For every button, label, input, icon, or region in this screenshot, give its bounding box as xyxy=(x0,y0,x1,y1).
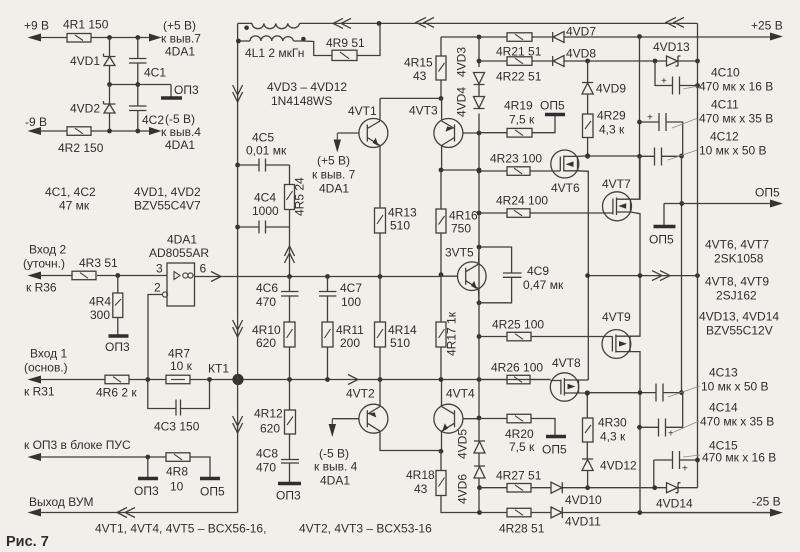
capacitor 4C4 xyxy=(238,226,290,228)
svg-text:4VD13, 4VD14: 4VD13, 4VD14 xyxy=(699,310,779,324)
svg-text:к выв.4: к выв.4 xyxy=(161,125,201,139)
resistor 4R23 xyxy=(479,170,551,172)
capacitor 4C15 xyxy=(654,459,698,461)
ground ОП3 (ПУС) xyxy=(138,477,158,480)
svg-text:Вход 1: Вход 1 xyxy=(30,347,67,361)
transistor 3VT5 xyxy=(458,262,487,291)
svg-text:4VD9: 4VD9 xyxy=(596,82,626,96)
svg-text:к выв. 7: к выв. 7 xyxy=(312,168,356,182)
capacitor 4C14 xyxy=(640,393,683,428)
mosfet 4VT9 xyxy=(602,330,631,359)
wire output node row y275.6 xyxy=(588,275,698,277)
wire op-amp output xyxy=(195,276,441,278)
svg-text:+: + xyxy=(668,429,674,440)
transistor 4VT2 xyxy=(359,404,388,433)
chevron rail down (top) xyxy=(233,85,243,102)
diode 4VD14 zener xyxy=(667,483,681,493)
svg-text:4R8: 4R8 xyxy=(166,465,188,479)
wire +25V row left xyxy=(441,36,479,38)
svg-text:4R2 150: 4R2 150 xyxy=(58,141,104,155)
wire 4VT1 collector row xyxy=(380,97,441,99)
svg-text:4R16: 4R16 xyxy=(449,209,478,223)
svg-text:BZV55C4V7: BZV55C4V7 xyxy=(134,199,201,213)
svg-text:4VT4: 4VT4 xyxy=(446,387,475,401)
resistor 4R5 xyxy=(289,165,291,227)
diode 4VD6 xyxy=(474,453,485,478)
svg-text:620: 620 xyxy=(256,336,276,350)
wire 4VT8 source row xyxy=(587,392,640,394)
svg-text:2: 2 xyxy=(154,281,161,295)
svg-text:1000: 1000 xyxy=(252,204,279,218)
svg-text:к R31: к R31 xyxy=(24,385,55,399)
svg-text:4VT2: 4VT2 xyxy=(346,387,375,401)
svg-text:4R19: 4R19 xyxy=(504,99,533,113)
svg-text:4С3 150: 4С3 150 xyxy=(154,420,200,434)
svg-text:ОП5: ОП5 xyxy=(540,99,565,113)
chevron rail down (bottom) xyxy=(233,416,243,433)
svg-text:4R26 100: 4R26 100 xyxy=(491,361,543,375)
mosfet 4VT8 xyxy=(550,373,578,401)
svg-text:4VD10: 4VD10 xyxy=(565,493,602,507)
svg-text:4VD1, 4VD2: 4VD1, 4VD2 xyxy=(134,185,201,199)
diode 4VD11 xyxy=(551,507,770,518)
wire 4R5/4C4 to opamp-out xyxy=(289,227,291,277)
svg-text:4R28 51: 4R28 51 xyxy=(499,522,545,536)
svg-text:-25 В: -25 В xyxy=(752,495,781,509)
resistor 4R3 xyxy=(72,271,96,280)
svg-text:4С12: 4С12 xyxy=(710,130,739,144)
wire 4VT4 emitter node xyxy=(440,450,442,452)
wire +9V row xyxy=(40,37,152,39)
resistor 4R22 xyxy=(479,60,553,62)
chevron output xyxy=(211,272,221,282)
svg-text:10 к: 10 к xyxy=(170,359,193,373)
capacitor 4C12 xyxy=(640,155,682,157)
resistor 4R25 xyxy=(479,336,602,338)
transistor 4VT1 xyxy=(359,119,388,148)
svg-text:4C1: 4C1 xyxy=(144,66,166,80)
wire ОП3 drop xyxy=(147,457,149,477)
wire link y170 xyxy=(441,169,479,171)
svg-text:4R11: 4R11 xyxy=(336,323,364,337)
svg-text:4VT3: 4VT3 xyxy=(409,104,438,118)
svg-text:4С13: 4С13 xyxy=(709,366,738,380)
diode 4VD12 xyxy=(582,442,593,488)
svg-text:510: 510 xyxy=(390,336,410,350)
wire output row xyxy=(40,512,238,514)
svg-text:к ОП3 в блоке ПУС: к ОП3 в блоке ПУС xyxy=(24,438,131,452)
zener 4VD1 xyxy=(109,38,111,85)
svg-text:4DA1: 4DA1 xyxy=(165,138,195,152)
resistor 4R18 xyxy=(441,451,480,512)
node Вход 2 xyxy=(28,272,42,280)
svg-text:4R13: 4R13 xyxy=(388,206,417,220)
svg-text:ОП5: ОП5 xyxy=(542,443,567,457)
chevron top line right xyxy=(666,17,684,27)
ground ОП5 (4R20) xyxy=(546,435,566,438)
node КТ1 xyxy=(232,374,243,385)
diode 4VD8 xyxy=(553,56,655,67)
svg-text:Вход 2: Вход 2 xyxy=(29,243,66,257)
junction dot 4R4 tap xyxy=(115,273,120,278)
svg-text:Выход ВУМ: Выход ВУМ xyxy=(29,495,93,509)
svg-text:43: 43 xyxy=(414,482,428,496)
resistor 4R21 xyxy=(479,36,553,38)
chevron top line left xyxy=(333,18,351,28)
resistor 4R29 xyxy=(583,114,594,138)
svg-text:4VD14: 4VD14 xyxy=(656,497,693,511)
node +9V input xyxy=(28,34,42,42)
svg-text:AD8055AR: AD8055AR xyxy=(149,246,209,260)
node (-5V) supply to 4VT2 base xyxy=(329,424,336,437)
ground ОП5 (4R19) xyxy=(545,113,565,116)
ground ОП5 (main) xyxy=(654,225,676,229)
svg-text:200: 200 xyxy=(340,336,360,350)
wire 4R9 to top line xyxy=(357,23,380,55)
svg-text:4,3 к: 4,3 к xyxy=(599,123,625,137)
node (+5V) supply to 4VT1 base xyxy=(334,140,341,153)
svg-text:4VT6, 4VT7: 4VT6, 4VT7 xyxy=(705,238,769,252)
wire bias chain x479 bottom xyxy=(478,478,480,513)
svg-text:43: 43 xyxy=(413,69,427,83)
svg-text:4R20: 4R20 xyxy=(505,427,534,441)
junction dots +9V row xyxy=(107,35,112,40)
chevron output row right xyxy=(652,271,670,281)
svg-text:4VD2: 4VD2 xyxy=(70,102,100,116)
capacitor 4C9 xyxy=(479,247,512,303)
resistor 4R10 xyxy=(284,322,295,347)
chevron КТ1 row right xyxy=(348,375,358,385)
svg-text:4R14: 4R14 xyxy=(388,323,417,337)
transistor 4VT4 xyxy=(434,404,463,433)
svg-text:4VT2, 4VT3 – BCX53-16: 4VT2, 4VT3 – BCX53-16 xyxy=(299,522,432,536)
svg-text:(-5 В): (-5 В) xyxy=(319,447,349,461)
svg-text:(+5 В): (+5 В) xyxy=(163,19,196,33)
svg-text:4С14: 4С14 xyxy=(709,401,738,415)
svg-text:4VT9: 4VT9 xyxy=(602,310,631,324)
svg-text:4VT1, 4VT4, 4VT5 – BCX56-16,: 4VT1, 4VT4, 4VT5 – BCX56-16, xyxy=(95,522,266,536)
svg-text:4VD4: 4VD4 xyxy=(455,87,469,117)
chevron output ВУМ xyxy=(117,508,135,518)
svg-text:к выв.7: к выв.7 xyxy=(161,32,201,46)
svg-text:4R27 51: 4R27 51 xyxy=(496,469,542,483)
svg-text:ОП3: ОП3 xyxy=(105,340,130,354)
svg-text:(уточн.): (уточн.) xyxy=(23,257,65,271)
svg-text:4VD1: 4VD1 xyxy=(70,54,100,68)
resistor 4R20 xyxy=(479,419,555,436)
resistor 4R9 xyxy=(332,50,357,60)
wire к ОП3 ПУС row xyxy=(28,453,42,461)
svg-text:4L1 2 мкГн: 4L1 2 мкГн xyxy=(245,46,304,60)
svg-text:4С11: 4С11 xyxy=(711,98,739,112)
node to pin4 4DA1 (-5V) xyxy=(149,127,162,135)
svg-text:4VD6: 4VD6 xyxy=(456,474,470,504)
svg-text:0,47 мк: 0,47 мк xyxy=(523,278,564,292)
svg-text:4R29: 4R29 xyxy=(597,109,626,123)
zener 4VD2 xyxy=(109,85,111,132)
svg-text:4R12: 4R12 xyxy=(254,407,283,421)
svg-text:ОП3: ОП3 xyxy=(174,83,199,97)
wire input1/КТ1 row xyxy=(40,379,551,381)
resistor 4R1 xyxy=(67,34,91,43)
op-amp 4DA1 xyxy=(167,263,195,306)
junction dot 4VT3 base xyxy=(477,131,482,136)
svg-text:0,01 мк: 0,01 мк xyxy=(246,144,287,158)
svg-text:к R36: к R36 xyxy=(26,281,57,295)
svg-text:2SJ162: 2SJ162 xyxy=(716,289,757,303)
capacitor 4C7 xyxy=(327,277,329,323)
svg-text:+: + xyxy=(661,76,667,87)
diode 4VD13 zener xyxy=(667,56,681,66)
svg-text:ОП5: ОП5 xyxy=(200,485,225,499)
svg-text:4С8: 4С8 xyxy=(256,447,278,461)
svg-text:+9 В: +9 В xyxy=(24,19,49,33)
svg-text:3: 3 xyxy=(156,262,163,276)
wire bias chain x479 mid xyxy=(478,170,480,418)
svg-text:4С7: 4С7 xyxy=(340,281,362,295)
wire +25V rail xyxy=(587,36,770,38)
wire main left rail x238 xyxy=(237,23,239,512)
node -9V input xyxy=(28,127,42,135)
svg-text:300: 300 xyxy=(90,308,110,322)
resistor 4R14 xyxy=(379,277,381,380)
svg-text:ОП5: ОП5 xyxy=(755,186,780,200)
wire ОП5 column x682 xyxy=(681,156,683,393)
junction dot 4R7 right xyxy=(207,377,212,382)
svg-text:BZV55C12V: BZV55C12V xyxy=(706,324,773,338)
svg-text:10 мк х 50 В: 10 мк х 50 В xyxy=(699,144,767,158)
svg-text:4VD3 – 4VD12: 4VD3 – 4VD12 xyxy=(267,80,347,94)
svg-text:47 мк: 47 мк xyxy=(59,199,90,213)
svg-text:4DA1: 4DA1 xyxy=(320,474,350,488)
resistor 4R4 xyxy=(117,276,119,336)
svg-text:470 мк х 35 В: 470 мк х 35 В xyxy=(699,112,773,126)
capacitor 4C5 xyxy=(238,164,290,166)
capacitor 4C6 xyxy=(289,277,291,323)
svg-text:4С10: 4С10 xyxy=(711,66,740,80)
transistor 4VT3 xyxy=(434,119,463,148)
junction dot 4VT8 source xyxy=(585,390,590,395)
svg-text:4VD12: 4VD12 xyxy=(600,459,637,473)
resistor 4R26 xyxy=(479,379,551,381)
svg-text:620: 620 xyxy=(260,422,280,436)
svg-text:4R3 51: 4R3 51 xyxy=(79,256,118,270)
svg-text:4R17 1к: 4R17 1к xyxy=(445,311,459,356)
svg-text:4VT8: 4VT8 xyxy=(552,356,581,370)
diode 4VD4 xyxy=(474,97,485,109)
ground ОП3 (under 4R4) xyxy=(109,334,129,337)
resistor 4R13 xyxy=(379,148,381,277)
wire mid ОП3 row xyxy=(110,85,172,97)
node Вход 1 xyxy=(28,376,42,384)
svg-text:4VD8: 4VD8 xyxy=(566,47,596,61)
chevron top line mid xyxy=(416,17,434,27)
mosfet 4VT6 xyxy=(551,150,579,178)
svg-text:4С5: 4С5 xyxy=(252,131,274,145)
svg-text:4С1, 4С2: 4С1, 4С2 xyxy=(45,185,96,199)
resistor 4R12 xyxy=(289,380,291,411)
svg-text:470: 470 xyxy=(256,461,276,475)
svg-text:510: 510 xyxy=(390,219,410,233)
svg-text:4VT7: 4VT7 xyxy=(602,177,631,191)
svg-text:4DA1: 4DA1 xyxy=(165,45,195,59)
resistor 4R27 xyxy=(480,487,552,489)
svg-text:4С4: 4С4 xyxy=(254,191,276,205)
capacitor 4C11 xyxy=(640,122,683,154)
svg-text:4VD11: 4VD11 xyxy=(565,515,601,529)
svg-text:(-5 В): (-5 В) xyxy=(165,112,195,126)
resistor 4R6 xyxy=(105,375,129,384)
resistor 4R24 xyxy=(479,212,604,214)
svg-text:10 мк х 50 В: 10 мк х 50 В xyxy=(701,380,769,394)
chevron rail down (mid) xyxy=(233,320,243,337)
svg-text:6: 6 xyxy=(200,262,207,276)
svg-text:4VT1: 4VT1 xyxy=(348,104,377,118)
resistor 4R15 xyxy=(440,37,442,98)
svg-text:(основ.): (основ.) xyxy=(24,361,68,375)
inductor 4L1 winding 2 xyxy=(238,41,332,56)
svg-text:470 мк х 16 В: 470 мк х 16 В xyxy=(702,451,776,465)
capacitor 4C1 xyxy=(137,38,139,85)
capacitor 4C13 xyxy=(640,392,682,394)
svg-text:7,5 к: 7,5 к xyxy=(509,440,535,454)
svg-text:2SK1058: 2SK1058 xyxy=(714,252,764,266)
svg-text:ОП3: ОП3 xyxy=(276,489,301,503)
svg-text:4С9: 4С9 xyxy=(527,264,549,278)
wire input2 row xyxy=(40,275,167,277)
svg-text:7,5 к: 7,5 к xyxy=(509,113,535,127)
ground ОП3 (4C8) xyxy=(278,482,301,485)
wire -9V row xyxy=(40,130,152,132)
svg-text:4DA1: 4DA1 xyxy=(167,233,197,247)
svg-text:4С6: 4С6 xyxy=(256,281,278,295)
svg-text:-9 В: -9 В xyxy=(25,115,47,129)
svg-text:4R23 100: 4R23 100 xyxy=(490,152,542,166)
svg-text:4R15: 4R15 xyxy=(404,56,433,70)
svg-text:4R4: 4R4 xyxy=(89,295,111,309)
diode 4VD7 xyxy=(553,32,587,43)
svg-text:4VT8, 4VT9: 4VT8, 4VT9 xyxy=(705,275,769,289)
svg-text:4VD13: 4VD13 xyxy=(653,40,690,54)
svg-text:4R25 100: 4R25 100 xyxy=(492,318,544,332)
wire +25V column x640 xyxy=(639,37,641,157)
svg-text:4R1 150: 4R1 150 xyxy=(63,18,109,32)
wire -25V rail xyxy=(640,512,770,514)
node Выход ВУМ xyxy=(28,509,42,517)
resistor 4R28 xyxy=(480,512,552,514)
wire top output line y23.4 xyxy=(238,22,698,24)
mosfet 4VT7 xyxy=(603,192,632,221)
wire pin2 feedback xyxy=(148,295,162,378)
svg-text:4R5 24: 4R5 24 xyxy=(293,177,307,216)
svg-text:+: + xyxy=(682,464,688,475)
svg-text:(+5 В): (+5 В) xyxy=(317,154,350,168)
diode 4VD9 xyxy=(582,61,593,114)
wire output column x697 xyxy=(697,23,699,487)
svg-text:470: 470 xyxy=(256,295,276,309)
svg-text:4R6 2 к: 4R6 2 к xyxy=(96,386,137,400)
svg-text:ОП5: ОП5 xyxy=(649,233,674,247)
chevron up x289 xyxy=(285,246,295,263)
svg-text:4R24 100: 4R24 100 xyxy=(496,194,548,208)
node to pin7 4DA1 (+5V) xyxy=(149,34,162,42)
wire 4VT6 drain row to +25 column xyxy=(588,155,640,157)
junction dot 4R6/4R7 xyxy=(145,377,150,382)
resistor 4R19 xyxy=(479,116,555,133)
resistor 4R17 xyxy=(440,275,442,380)
svg-text:10: 10 xyxy=(170,480,184,494)
svg-text:4VT6: 4VT6 xyxy=(551,181,580,195)
svg-text:4R30: 4R30 xyxy=(598,416,627,430)
svg-text:100: 100 xyxy=(341,295,361,309)
svg-text:+: + xyxy=(647,113,653,124)
svg-text:470 мк х 16 В: 470 мк х 16 В xyxy=(699,80,773,94)
svg-text:ОП3: ОП3 xyxy=(134,484,159,498)
ground ОП3 (top) xyxy=(161,96,182,99)
diode 4VD10 xyxy=(551,482,655,493)
resistor 4R16 xyxy=(440,170,442,275)
svg-text:750: 750 xyxy=(451,222,471,236)
junction dots opamp-out row xyxy=(287,274,292,279)
ground ОП5 (4R8) xyxy=(200,477,220,480)
svg-text:3VT5: 3VT5 xyxy=(445,246,474,260)
capacitor 4C3 xyxy=(148,380,210,409)
svg-text:4VD5: 4VD5 xyxy=(456,429,470,459)
svg-text:+25 В: +25 В xyxy=(751,19,783,33)
diode 4VD5 xyxy=(474,418,485,453)
svg-text:Рис. 7: Рис. 7 xyxy=(6,534,49,550)
resistor 4R2 xyxy=(67,127,91,136)
svg-text:4R9 51: 4R9 51 xyxy=(326,36,365,50)
resistor 4R11 xyxy=(322,322,333,347)
junction dot 4VT6 drain xyxy=(585,153,590,158)
diode 4VD3 xyxy=(474,73,485,85)
capacitor 4C8 xyxy=(289,434,291,482)
resistor 4R7 xyxy=(166,375,190,384)
svg-text:4R10: 4R10 xyxy=(252,323,281,337)
resistor 4R30 xyxy=(586,393,588,418)
svg-text:КТ1: КТ1 xyxy=(208,362,229,376)
svg-text:4DA1: 4DA1 xyxy=(319,182,349,196)
node ОП5 output xyxy=(664,204,770,226)
resistor 4R8 xyxy=(166,453,190,462)
svg-text:4R18: 4R18 xyxy=(406,468,435,482)
svg-text:4R22 51: 4R22 51 xyxy=(496,70,542,84)
inductor 4L1 winding 1 xyxy=(252,23,299,28)
svg-text:к выв. 4: к выв. 4 xyxy=(314,460,358,474)
capacitor 4C2 xyxy=(137,85,139,132)
svg-text:4VD3: 4VD3 xyxy=(455,47,469,77)
junction dots КТ1 row xyxy=(287,377,292,382)
wire bias chain x479 top xyxy=(478,37,480,170)
svg-text:1N4148WS: 1N4148WS xyxy=(271,94,332,108)
capacitor 4C10 xyxy=(655,61,698,86)
svg-text:470 мк х 35 В: 470 мк х 35 В xyxy=(700,415,774,429)
svg-text:4,3 к: 4,3 к xyxy=(600,430,626,444)
